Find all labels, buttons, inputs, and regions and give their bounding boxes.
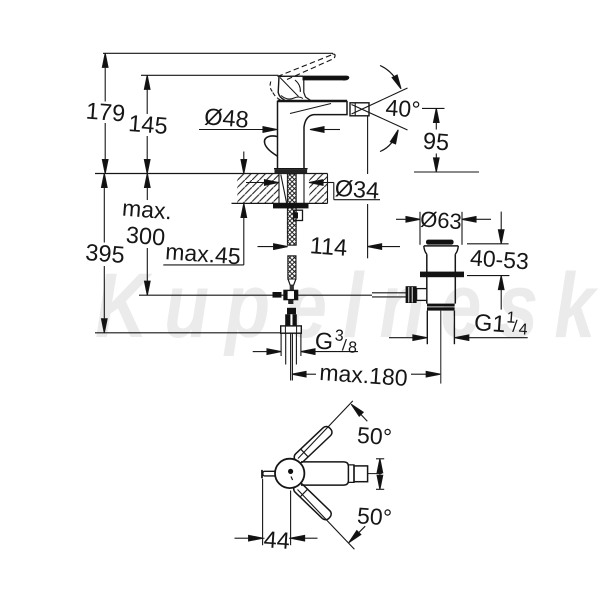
dimension 95 top tick [422, 107, 445, 109]
dimension G3/8 [253, 351, 267, 353]
deck reference line right (95 dim base) [414, 171, 479, 173]
deck top surface line [95, 173, 328, 175]
waste centerline [440, 311, 442, 384]
supply tube center pipe [290, 333, 292, 380]
body right edge through deck [303, 174, 305, 204]
G3/8 hex nut [281, 326, 302, 333]
svg-text:Ø48: Ø48 [203, 103, 249, 132]
dimension Ø34 arrows [246, 182, 265, 184]
faucet body top thick edge [278, 100, 348, 102]
fixing clamp on shank [294, 210, 303, 220]
Ø63 extension lines [419, 212, 421, 245]
dimension max.180 [292, 371, 306, 377]
395 bottom reference line [95, 332, 281, 334]
dimension 40-53 arrows [500, 212, 502, 230]
dimension max.300 [146, 174, 148, 201]
label 44 [265, 530, 290, 548]
spout tip extension line [367, 116, 369, 174]
dimension 44 [235, 537, 249, 539]
dimension 40-53 reference lines [467, 243, 509, 245]
plan view: pop-up rod [263, 471, 278, 476]
waste top rim [424, 245, 459, 247]
svg-text:max.45: max.45 [165, 238, 242, 269]
plan view: spout [301, 462, 348, 485]
svg-text:179: 179 [85, 98, 126, 127]
threaded shank (cross-hatched) [287, 174, 296, 245]
svg-text:50°: 50° [356, 422, 393, 450]
svg-text:4: 4 [518, 321, 528, 339]
pop-up rod double line near waste [372, 292, 406, 294]
svg-text:max.: max. [121, 195, 173, 225]
svg-text:145: 145 [128, 110, 169, 139]
faucet body reflection line [290, 104, 331, 114]
svg-text:Ø34: Ø34 [334, 175, 380, 204]
plan view: center dot [288, 469, 293, 474]
spray cone lines (40 deg) [352, 88, 408, 114]
spray angle arc arrow lower [380, 131, 398, 152]
dimension 395 [103, 174, 105, 243]
cartridge cover outline [278, 76, 303, 100]
cross fitting lower neck [288, 300, 293, 304]
dimension 179 [104, 53, 106, 101]
aerator box [350, 103, 369, 116]
deck hatching left of hole [237, 174, 279, 203]
cross fitting left arm [273, 292, 282, 298]
lever handle (closed position) [303, 76, 349, 80]
dimension Ø48 right arrow [310, 127, 324, 133]
waste actuating knob (knurled) [406, 286, 417, 303]
dimension 145 [146, 75, 148, 114]
plan view: upper supply hose [292, 425, 334, 465]
cross fitting body [284, 290, 298, 299]
cartridge cover sketch lines [280, 78, 303, 100]
waste body upper [426, 254, 428, 303]
dimension 44 extension lines [262, 479, 264, 545]
handle raised position (dashed) [278, 55, 333, 77]
svg-text:395: 395 [85, 239, 126, 268]
label G1 1/4 [473, 307, 529, 339]
deck bottom surface line [232, 202, 328, 204]
dimension 95 [435, 108, 437, 129]
waste tailpipe [426, 311, 428, 345]
50deg ray lower [298, 490, 355, 550]
plan view: lower supply hose [292, 481, 333, 521]
spray angle arc arrow upper [380, 66, 401, 88]
G3/8 threaded tube outer walls [280, 333, 282, 356]
plan view: faucet body circle [275, 459, 304, 488]
50deg ticks and double arrow [376, 458, 384, 460]
svg-text:G: G [314, 327, 334, 354]
plan view: centerline nub [368, 473, 382, 475]
pop-up rod knob behind body [264, 136, 277, 156]
shank hole left channel line [278, 174, 280, 204]
mounting washer under deck [273, 204, 309, 209]
flexible hose upper section (cross-hatched) [287, 244, 289, 246]
plan view: aerator [354, 466, 368, 482]
extension line: closed-handle top level (145 ref) [141, 74, 279, 76]
plan view: spout neck [348, 465, 354, 483]
50deg ray upper [298, 401, 353, 459]
faucet body outline [278, 101, 348, 169]
svg-text:40°: 40° [385, 94, 422, 122]
lever underside step [304, 80, 311, 101]
waste plug cap [426, 240, 454, 245]
raised handle rear dashes [270, 82, 280, 101]
pop-up rod horizontal line [139, 294, 372, 296]
svg-text:114: 114 [309, 232, 348, 261]
svg-text:300: 300 [125, 222, 166, 251]
raised handle tip curl [333, 54, 336, 58]
svg-text:44: 44 [263, 526, 291, 554]
dimension 114 [258, 246, 275, 248]
dimension G1 1/4 [389, 337, 413, 339]
svg-text:8: 8 [347, 339, 357, 357]
svg-text:G1: G1 [473, 309, 506, 337]
deck hatching right of hole [309, 174, 328, 203]
waste mounting flange [420, 272, 464, 278]
svg-text:Ø63: Ø63 [419, 206, 462, 234]
dimension Ø63 arrows [396, 218, 406, 220]
dimension Ø48 leader [199, 129, 263, 131]
faucet base plate [275, 169, 308, 173]
G3/8 tube inner walls [285, 333, 287, 364]
hose neck above cross fitting [290, 285, 294, 291]
waste locknut rings [427, 304, 455, 307]
svg-text:max.180: max.180 [319, 359, 409, 391]
svg-text:50°: 50° [356, 502, 393, 530]
label G3/8 [314, 326, 358, 357]
hose end fitting piece [287, 308, 296, 315]
shank hole diagonal [281, 175, 287, 204]
svg-text:40-53: 40-53 [469, 244, 529, 274]
watermark Kupelnesk [95, 254, 600, 357]
deck right edge [327, 174, 329, 204]
svg-text:95: 95 [422, 128, 450, 156]
hose taper to connector [288, 279, 296, 285]
extension line: raised-handle top level (179 ref) [103, 52, 333, 54]
hose end fitting lower block [285, 314, 297, 326]
dimension max.45 [241, 160, 247, 174]
